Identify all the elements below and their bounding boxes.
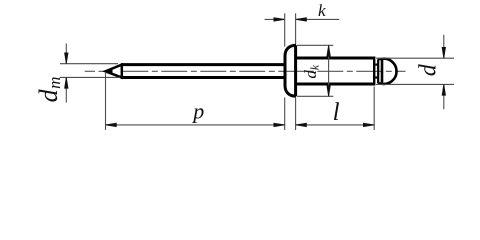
l extension line right (below body end) — [373, 87, 375, 131]
dm dimension line upper leg — [65, 44, 67, 64]
mandrel stub top between body and collar — [375, 63, 378, 65]
body top line — [296, 57, 375, 60]
dk arrow top (points up) — [327, 45, 330, 56]
p extension line left (from tip down) — [105, 73, 107, 130]
l dimension line — [296, 124, 375, 126]
k dimension line right segment — [296, 18, 340, 20]
mandrel head ball — [382, 59, 397, 84]
dk arrow bottom (points down) — [327, 86, 330, 97]
p arrow left (points left) — [106, 123, 117, 126]
d arrow lower (points up) — [442, 84, 445, 95]
mandrel shaft top line — [121, 63, 286, 66]
l extension line left (below head face) — [295, 98, 297, 130]
svg-text:l: l — [333, 99, 340, 126]
dm arrow lower (points up) — [65, 77, 68, 88]
svg-text:d: d — [416, 63, 442, 76]
mandrel stub bottom — [375, 76, 378, 78]
l arrow right (points right) — [363, 123, 374, 126]
mandrel shaft bottom line — [121, 76, 286, 79]
d extension line bottom — [376, 83, 454, 85]
center line (axis, dash-dot) main — [122, 70, 405, 72]
dm arrow upper (points down) — [65, 53, 68, 64]
svg-text:p: p — [191, 99, 204, 124]
mandrel tip apex fill — [104, 68, 112, 75]
k arrow right (points left) — [296, 18, 307, 21]
d dimension line lower leg — [443, 84, 445, 109]
rivet head face — [294, 45, 297, 96]
dk extension line top — [297, 44, 333, 46]
p extension line right (below head left edge) — [284, 98, 286, 131]
k extension line left — [284, 13, 286, 46]
dm extension line top — [60, 63, 118, 65]
center line (axis) first dash — [85, 70, 95, 72]
dm dimension line lower leg — [65, 77, 67, 102]
p arrow right (points right) — [274, 123, 285, 126]
k dimension line left segment — [265, 18, 285, 20]
d arrow upper (points down) — [442, 47, 445, 58]
svg-text:k: k — [318, 1, 326, 20]
k arrow left (points right) — [274, 18, 285, 21]
dk extension line bottom — [297, 95, 333, 97]
dm extension line bottom — [60, 76, 120, 78]
l arrow left (points left) — [296, 123, 307, 126]
mandrel head collar — [378, 59, 382, 83]
center line short dash before tip — [99, 70, 105, 72]
k extension line right — [295, 13, 297, 44]
d dimension line upper leg — [443, 35, 445, 58]
mandrel tip (cone) — [106, 65, 122, 78]
d extension line top — [376, 57, 454, 59]
dk dimension line — [328, 45, 330, 96]
rivet head (dome) — [285, 45, 296, 96]
body bottom line — [296, 83, 375, 86]
body right end — [373, 57, 375, 86]
p dimension line — [106, 124, 285, 126]
